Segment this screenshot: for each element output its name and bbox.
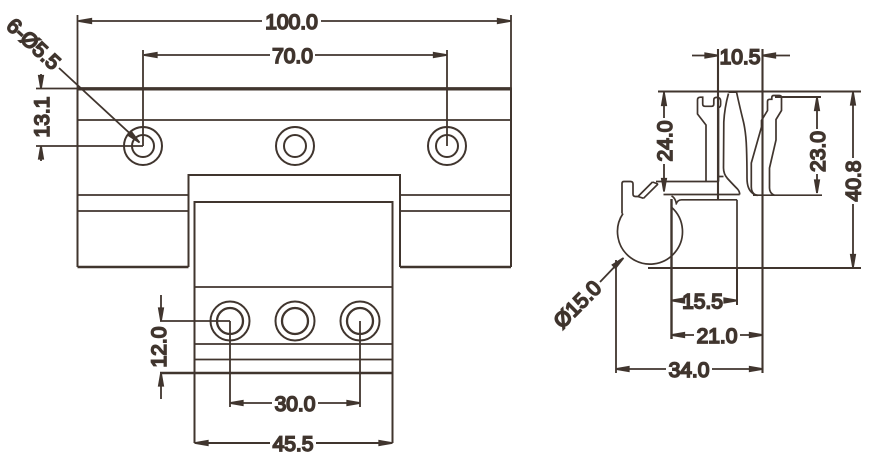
svg-text:45.5: 45.5: [273, 433, 314, 456]
svg-text:13.1: 13.1: [31, 97, 54, 138]
svg-text:Ø15.0: Ø15.0: [549, 276, 606, 333]
svg-text:24.0: 24.0: [654, 121, 677, 162]
svg-text:12.0: 12.0: [148, 327, 171, 368]
svg-text:100.0: 100.0: [265, 11, 318, 34]
svg-text:30.0: 30.0: [275, 393, 316, 416]
svg-text:15.5: 15.5: [682, 291, 723, 314]
svg-text:6-Ø5.5: 6-Ø5.5: [2, 14, 65, 74]
svg-text:21.0: 21.0: [697, 325, 738, 348]
svg-text:10.5: 10.5: [720, 46, 761, 69]
svg-text:40.8: 40.8: [843, 161, 866, 202]
svg-text:23.0: 23.0: [807, 131, 830, 172]
svg-text:70.0: 70.0: [272, 45, 313, 68]
svg-text:34.0: 34.0: [669, 359, 710, 382]
